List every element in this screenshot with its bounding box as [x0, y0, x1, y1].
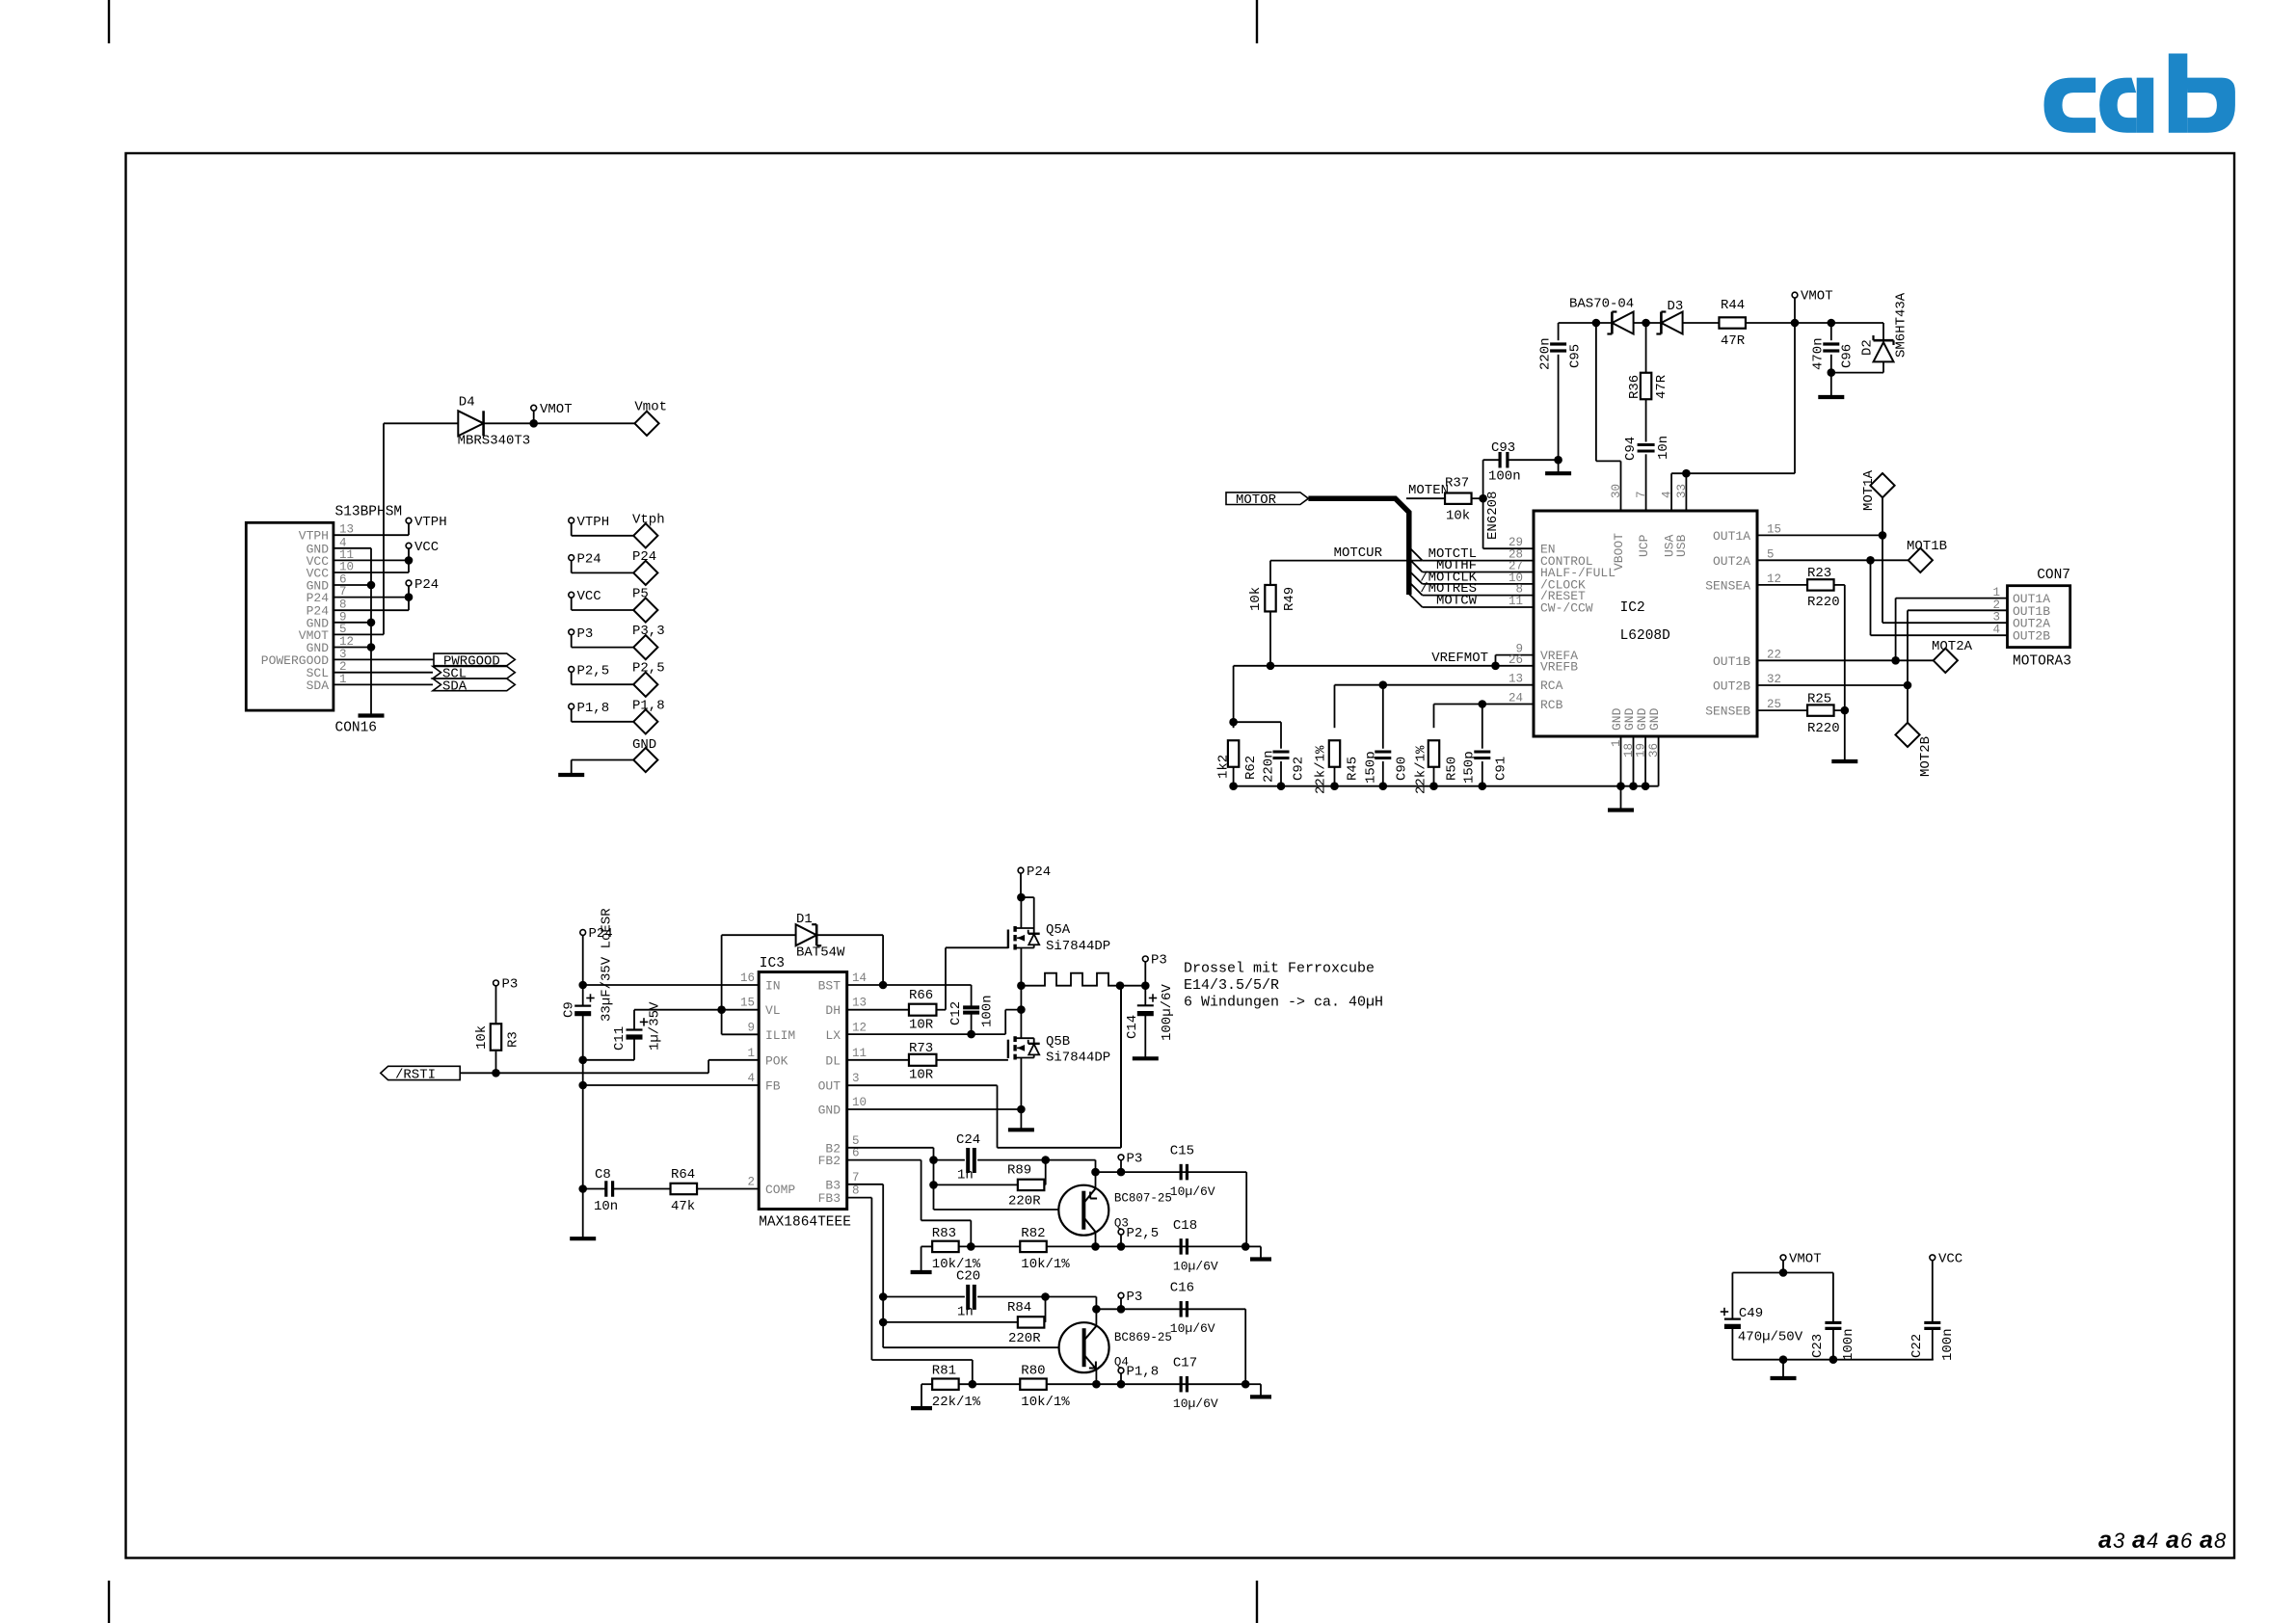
svg-text:VCC: VCC: [577, 589, 601, 604]
svg-text:1: 1: [1610, 739, 1623, 747]
svg-text:12: 12: [1767, 572, 1781, 586]
svg-text:FB2: FB2: [818, 1154, 841, 1168]
svg-text:VREFMOT: VREFMOT: [1431, 651, 1488, 666]
svg-text:LX: LX: [825, 1028, 841, 1043]
svg-text:1µ/35V: 1µ/35V: [648, 1001, 663, 1051]
svg-text:MOT1B: MOT1B: [1907, 539, 1947, 554]
svg-text:33: 33: [1675, 484, 1689, 498]
svg-text:S13BPHSM: S13BPHSM: [335, 505, 403, 520]
svg-text:8: 8: [2214, 1529, 2227, 1553]
svg-text:MOT2B: MOT2B: [1918, 736, 1934, 777]
svg-text:C93: C93: [1491, 440, 1515, 456]
svg-text:BC869-25: BC869-25: [1114, 1331, 1172, 1344]
svg-text:R81: R81: [932, 1364, 956, 1379]
svg-text:24: 24: [1508, 692, 1523, 705]
svg-text:13: 13: [1508, 673, 1523, 686]
svg-text:11: 11: [1508, 595, 1523, 608]
svg-text:VCC: VCC: [414, 540, 439, 555]
svg-text:MOTCW: MOTCW: [1436, 594, 1478, 609]
svg-text:4: 4: [2147, 1529, 2158, 1553]
svg-text:Q5A: Q5A: [1046, 922, 1071, 938]
svg-text:POK: POK: [765, 1053, 788, 1068]
svg-text:10µ/6V: 10µ/6V: [1170, 1321, 1215, 1336]
svg-text:P24: P24: [1027, 865, 1051, 880]
svg-text:4: 4: [1992, 624, 2000, 637]
svg-text:SM6HT43A: SM6HT43A: [1894, 292, 1909, 358]
svg-text:IN: IN: [765, 979, 781, 994]
svg-text:D4: D4: [459, 395, 475, 411]
svg-text:470n: 470n: [1811, 337, 1827, 370]
svg-text:19: 19: [1635, 743, 1648, 758]
svg-text:VCC: VCC: [1938, 1252, 1962, 1267]
svg-text:Drossel mit Ferroxcube: Drossel mit Ferroxcube: [1184, 961, 1375, 977]
svg-text:C95: C95: [1568, 344, 1584, 368]
svg-text:R220: R220: [1807, 595, 1840, 610]
svg-text:C24: C24: [956, 1132, 980, 1148]
svg-text:P24: P24: [577, 552, 601, 568]
svg-text:OUT2B: OUT2B: [2013, 629, 2050, 644]
svg-text:100n: 100n: [979, 995, 995, 1027]
svg-text:L6208D: L6208D: [1620, 628, 1670, 644]
svg-text:EN6208: EN6208: [1485, 492, 1501, 540]
svg-text:100µ/6V: 100µ/6V: [1160, 984, 1175, 1041]
svg-text:MBRS340T3: MBRS340T3: [458, 433, 531, 448]
svg-text:13: 13: [852, 997, 867, 1010]
svg-text:VMOT: VMOT: [1801, 289, 1833, 305]
svg-text:2: 2: [747, 1176, 755, 1189]
svg-text:220n: 220n: [1538, 337, 1554, 370]
svg-text:RCA: RCA: [1540, 678, 1563, 693]
svg-text:10µ/6V: 10µ/6V: [1173, 1260, 1218, 1274]
svg-text:P2,5: P2,5: [632, 661, 665, 677]
svg-text:C90: C90: [1395, 757, 1410, 781]
svg-text:C8: C8: [595, 1167, 611, 1183]
svg-text:150p: 150p: [1462, 751, 1478, 784]
svg-text:R80: R80: [1021, 1364, 1045, 1379]
svg-text:Vmot: Vmot: [634, 400, 667, 415]
svg-text:C22: C22: [1909, 1334, 1925, 1358]
svg-text:OUT2B: OUT2B: [1713, 679, 1750, 694]
svg-text:26: 26: [1508, 653, 1523, 667]
svg-text:E14/3.5/5/R: E14/3.5/5/R: [1184, 977, 1279, 994]
svg-text:P2,5: P2,5: [1127, 1226, 1160, 1241]
svg-text:P3: P3: [577, 626, 594, 642]
svg-text:IC3: IC3: [760, 956, 785, 971]
svg-text:R36: R36: [1627, 375, 1642, 399]
svg-text:220n: 220n: [1262, 750, 1277, 783]
svg-text:Q5B: Q5B: [1046, 1034, 1070, 1050]
svg-text:25: 25: [1767, 698, 1781, 711]
svg-text:6 Windungen -> ca. 40µH: 6 Windungen -> ca. 40µH: [1184, 995, 1383, 1011]
svg-text:FB3: FB3: [818, 1191, 841, 1206]
svg-text:P5: P5: [632, 587, 649, 602]
svg-text:10n: 10n: [1656, 436, 1671, 460]
svg-text:220R: 220R: [1008, 1194, 1041, 1210]
svg-text:CON7: CON7: [2037, 568, 2070, 583]
svg-text:R62: R62: [1243, 756, 1259, 780]
svg-text:C96: C96: [1840, 344, 1855, 368]
svg-text:a: a: [2166, 1527, 2179, 1554]
svg-text:P1,8: P1,8: [577, 701, 610, 716]
svg-text:5: 5: [1767, 547, 1775, 561]
svg-text:D2: D2: [1860, 339, 1876, 356]
svg-text:OUT1B: OUT1B: [1713, 654, 1750, 669]
svg-text:9: 9: [747, 1021, 755, 1034]
svg-text:11: 11: [852, 1047, 867, 1060]
svg-text:R64: R64: [671, 1167, 695, 1183]
svg-text:MOTCUR: MOTCUR: [1334, 545, 1383, 561]
svg-text:1k2: 1k2: [1216, 755, 1232, 779]
svg-text:OUT: OUT: [818, 1079, 841, 1094]
svg-text:MOTOR: MOTOR: [1236, 492, 1277, 508]
svg-text:IC2: IC2: [1620, 600, 1645, 616]
svg-text:P3: P3: [1127, 1290, 1143, 1305]
svg-text:MOTEN: MOTEN: [1408, 483, 1449, 498]
svg-text:SENSEB: SENSEB: [1705, 705, 1750, 719]
svg-text:100n: 100n: [1940, 1328, 1956, 1361]
svg-text:SENSEA: SENSEA: [1705, 578, 1750, 593]
svg-text:32: 32: [1767, 673, 1781, 686]
svg-text:150p: 150p: [1364, 751, 1379, 784]
svg-text:36: 36: [1647, 743, 1661, 758]
svg-text:C16: C16: [1170, 1281, 1194, 1296]
svg-text:P1,8: P1,8: [632, 698, 665, 713]
svg-text:BC807-25: BC807-25: [1114, 1192, 1172, 1206]
svg-text:14: 14: [852, 971, 867, 985]
svg-text:FB: FB: [765, 1079, 781, 1094]
svg-text:C20: C20: [956, 1269, 980, 1285]
svg-text:33µF/35V LoESR: 33µF/35V LoESR: [600, 908, 615, 1022]
svg-text:7: 7: [1635, 491, 1648, 498]
svg-text:R25: R25: [1807, 692, 1831, 707]
svg-text:UCP: UCP: [1637, 534, 1651, 557]
svg-text:10k: 10k: [1446, 509, 1470, 524]
svg-text:VMOT: VMOT: [1789, 1252, 1822, 1267]
svg-text:8: 8: [852, 1184, 860, 1198]
svg-text:C12: C12: [948, 1001, 964, 1025]
svg-text:P3,3: P3,3: [632, 624, 665, 639]
svg-text:BAT54W: BAT54W: [796, 945, 845, 961]
svg-text:220R: 220R: [1008, 1331, 1041, 1346]
svg-text:P24: P24: [414, 577, 439, 593]
svg-text:1n: 1n: [957, 1168, 974, 1184]
svg-text:R37: R37: [1445, 476, 1469, 492]
svg-text:GND: GND: [818, 1104, 841, 1118]
svg-text:OUT2A: OUT2A: [1713, 554, 1750, 569]
svg-text:10k/1%: 10k/1%: [1021, 1395, 1070, 1410]
svg-text:CON16: CON16: [335, 721, 378, 736]
svg-text:RCB: RCB: [1540, 698, 1563, 712]
svg-text:Si7844DP: Si7844DP: [1046, 939, 1110, 954]
svg-text:a: a: [2200, 1527, 2213, 1554]
svg-text:B3: B3: [825, 1178, 841, 1192]
svg-text:4: 4: [1661, 491, 1674, 498]
svg-text:15: 15: [1767, 522, 1781, 536]
svg-text:10R: 10R: [909, 1068, 934, 1083]
svg-text:R220: R220: [1807, 721, 1840, 736]
svg-text:1n: 1n: [957, 1305, 974, 1320]
svg-text:3: 3: [1992, 611, 2000, 625]
svg-text:CW-/CCW: CW-/CCW: [1540, 601, 1593, 616]
svg-text:DL: DL: [825, 1053, 841, 1068]
svg-text:D1: D1: [796, 912, 813, 927]
svg-text:3: 3: [2113, 1529, 2125, 1553]
svg-text:COMP: COMP: [765, 1183, 795, 1197]
svg-text:GND: GND: [632, 737, 656, 753]
svg-text:R44: R44: [1721, 298, 1745, 313]
svg-text:MOT2A: MOT2A: [1932, 639, 1973, 654]
svg-text:R66: R66: [909, 988, 933, 1003]
svg-text:R3: R3: [506, 1031, 521, 1048]
svg-text:P24: P24: [632, 549, 656, 565]
svg-text:P1,8: P1,8: [1127, 1365, 1160, 1380]
svg-text:R82: R82: [1021, 1226, 1045, 1241]
svg-text:GND: GND: [1647, 707, 1662, 731]
svg-text:R49: R49: [1282, 587, 1297, 611]
svg-text:10µ/6V: 10µ/6V: [1173, 1397, 1218, 1411]
svg-text:OUT1A: OUT1A: [1713, 529, 1750, 544]
svg-text:MOT1A: MOT1A: [1861, 469, 1877, 511]
svg-text:C49: C49: [1739, 1306, 1763, 1321]
svg-text:C23: C23: [1810, 1334, 1826, 1358]
svg-text:15: 15: [740, 997, 755, 1010]
svg-text:2: 2: [1992, 599, 2000, 612]
svg-text:30: 30: [1610, 484, 1623, 498]
svg-text:D3: D3: [1668, 299, 1684, 314]
svg-text:47R: 47R: [1654, 374, 1669, 399]
svg-text:10R: 10R: [909, 1018, 934, 1033]
svg-text:7: 7: [852, 1171, 860, 1184]
svg-text:VTPH: VTPH: [577, 515, 610, 530]
svg-text:C18: C18: [1173, 1218, 1197, 1234]
svg-text:C92: C92: [1292, 757, 1307, 781]
svg-text:100n: 100n: [1841, 1328, 1856, 1361]
svg-text:C94: C94: [1623, 437, 1639, 461]
svg-text:VL: VL: [765, 1003, 781, 1018]
svg-text:R83: R83: [932, 1226, 956, 1241]
svg-text:BAS70-04: BAS70-04: [1569, 297, 1634, 312]
svg-text:DH: DH: [825, 1003, 841, 1018]
svg-text:VBOOT: VBOOT: [1612, 533, 1626, 571]
svg-text:C9: C9: [562, 1001, 577, 1018]
svg-text:a: a: [2132, 1527, 2146, 1554]
svg-text:VREFB: VREFB: [1540, 659, 1578, 674]
svg-text:VTPH: VTPH: [414, 515, 447, 530]
svg-text:R50: R50: [1445, 757, 1460, 781]
svg-text:1: 1: [747, 1047, 755, 1060]
svg-text:22: 22: [1767, 648, 1781, 661]
svg-text:a: a: [2098, 1527, 2112, 1554]
svg-text:16: 16: [740, 971, 755, 985]
svg-text:C11: C11: [612, 1026, 627, 1051]
svg-text:Si7844DP: Si7844DP: [1046, 1051, 1110, 1066]
svg-text:47k: 47k: [671, 1199, 695, 1214]
svg-text:P3: P3: [1151, 953, 1167, 969]
svg-text:R89: R89: [1007, 1163, 1031, 1179]
svg-text:10k/1%: 10k/1%: [1021, 1257, 1070, 1272]
svg-text:Vtph: Vtph: [632, 512, 665, 527]
svg-text:100n: 100n: [1488, 469, 1521, 485]
svg-text:C91: C91: [1494, 757, 1509, 781]
svg-text:SDA: SDA: [442, 678, 467, 694]
svg-text:4: 4: [747, 1072, 755, 1085]
svg-text:R84: R84: [1007, 1300, 1031, 1316]
svg-text:10µ/6V: 10µ/6V: [1170, 1184, 1215, 1199]
svg-text:ILIM: ILIM: [765, 1028, 795, 1043]
svg-text:MOTORA3: MOTORA3: [2013, 654, 2071, 670]
svg-text:C15: C15: [1170, 1144, 1194, 1159]
svg-text:P3: P3: [1127, 1152, 1143, 1167]
svg-text:470µ/50V: 470µ/50V: [1738, 1330, 1803, 1345]
svg-text:10: 10: [852, 1096, 867, 1109]
svg-text:/RSTI: /RSTI: [395, 1067, 436, 1082]
svg-text:VMOT: VMOT: [540, 402, 573, 417]
svg-text:10k: 10k: [474, 1025, 490, 1050]
svg-text:R45: R45: [1346, 757, 1361, 781]
svg-text:12: 12: [852, 1021, 867, 1034]
svg-text:USB: USB: [1674, 534, 1689, 557]
svg-text:6: 6: [2180, 1529, 2193, 1553]
svg-text:R73: R73: [909, 1041, 933, 1056]
svg-text:47R: 47R: [1721, 333, 1746, 349]
svg-text:10n: 10n: [594, 1199, 618, 1214]
svg-text:3: 3: [852, 1072, 860, 1085]
svg-text:C14: C14: [1125, 1015, 1140, 1039]
svg-text:22k/1%: 22k/1%: [932, 1395, 981, 1410]
svg-text:P2,5: P2,5: [577, 663, 610, 678]
svg-text:P3: P3: [502, 977, 519, 993]
svg-text:R23: R23: [1807, 566, 1831, 581]
svg-text:10k: 10k: [1248, 587, 1264, 611]
svg-text:BST: BST: [818, 979, 841, 994]
svg-text:MAX1864TEEE: MAX1864TEEE: [759, 1215, 851, 1231]
svg-text:C17: C17: [1173, 1356, 1197, 1371]
svg-text:SDA: SDA: [307, 678, 330, 693]
